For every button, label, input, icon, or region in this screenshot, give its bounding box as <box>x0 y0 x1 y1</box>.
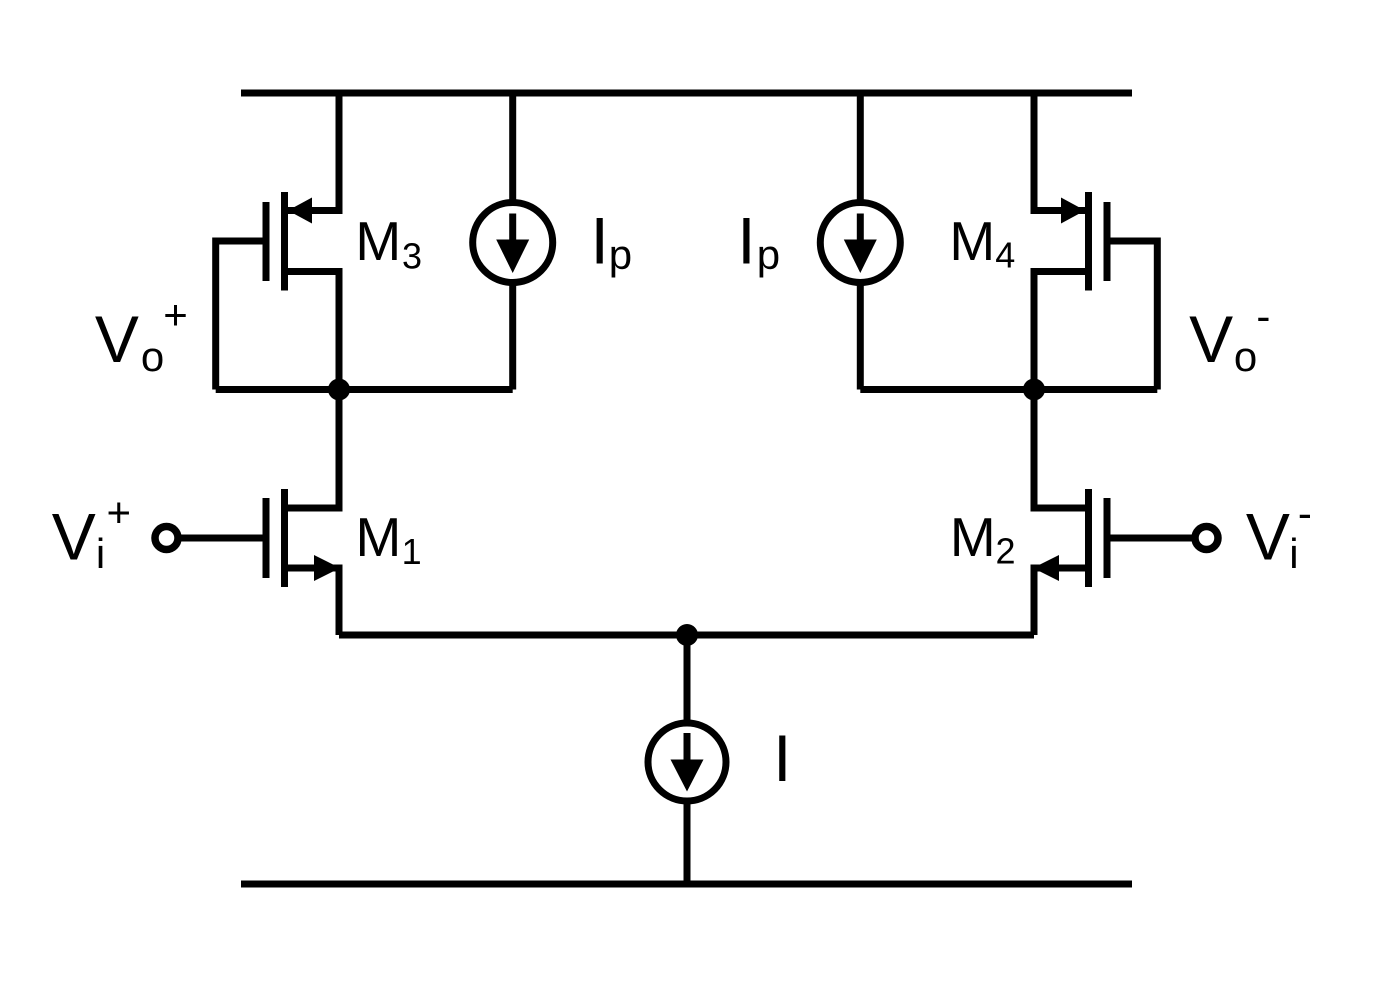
wire M2 gate lead <box>1107 535 1207 542</box>
current source Ip1 circle <box>473 203 553 283</box>
node A junction dot <box>328 379 350 401</box>
svg-text:o: o <box>141 333 164 380</box>
wire node row right <box>860 386 1157 393</box>
wire Ip1 to node A <box>509 281 516 390</box>
wire VDD to current source Ip1 <box>509 93 516 204</box>
svg-text:-: - <box>1298 490 1312 537</box>
wire VDD to current source Ip2 <box>857 93 864 204</box>
wire M3 gate loop (diode connection) <box>216 241 266 390</box>
wire M2 drain lead <box>1031 505 1090 512</box>
current source Ip2 arrow <box>857 214 864 242</box>
svg-text:M: M <box>950 506 996 568</box>
wire M2 source lead <box>1031 565 1090 572</box>
svg-text:V: V <box>95 302 139 376</box>
svg-text:p: p <box>609 231 632 278</box>
wire M4 source lead to VDD <box>1034 93 1085 211</box>
current source I circle <box>648 723 726 801</box>
svg-text:1: 1 <box>402 531 422 572</box>
current source I arrow <box>684 733 691 761</box>
transistor M1 channel bar <box>281 489 288 587</box>
transistor M3 channel bar <box>281 192 288 291</box>
svg-text:o: o <box>1234 333 1257 380</box>
input terminal Vi+ circle <box>155 527 178 550</box>
transistor M2 gate bar <box>1104 498 1111 578</box>
wire M1 source lead <box>284 565 343 572</box>
wire M3 drain to node A <box>336 272 343 509</box>
svg-text:V: V <box>1246 500 1290 574</box>
svg-text:p: p <box>757 231 780 278</box>
svg-text:I: I <box>773 721 791 795</box>
node tail junction dot <box>676 624 698 646</box>
svg-text:+: + <box>163 291 188 338</box>
svg-text:M: M <box>356 506 402 568</box>
input terminal Vi- circle <box>1195 527 1218 550</box>
svg-text:+: + <box>107 489 132 536</box>
svg-text:4: 4 <box>995 235 1015 276</box>
transistor M4 gate bar <box>1104 202 1111 281</box>
transistor M1 source arrow <box>314 555 340 581</box>
svg-text:3: 3 <box>402 236 422 277</box>
current source Ip1 arrow <box>509 214 516 242</box>
wire M3 source lead to VDD <box>288 93 339 211</box>
wire M4 gate loop (diode connection) <box>1107 241 1157 390</box>
svg-text:i: i <box>1289 530 1298 577</box>
svg-text:M: M <box>949 210 995 272</box>
transistor M2 channel bar <box>1085 489 1092 587</box>
wire M3 drain lead <box>284 268 343 275</box>
svg-text:i: i <box>96 530 105 577</box>
svg-text:I: I <box>737 204 755 278</box>
wire node row left <box>216 386 513 393</box>
wire M2 source to tail <box>1031 568 1038 635</box>
transistor M3 gate bar <box>263 202 270 281</box>
node B junction dot <box>1023 379 1045 401</box>
transistor M1 gate bar <box>263 498 270 578</box>
wire M4 drain to node B <box>1031 272 1038 509</box>
VSS rail (bottom) <box>241 881 1132 888</box>
transistor M3 source arrow <box>288 198 312 224</box>
VDD rail (top) <box>241 90 1132 97</box>
wire tail row <box>339 632 1034 639</box>
wire M1 source to tail <box>336 568 343 635</box>
wire Ip2 to node B <box>857 281 864 390</box>
wire M4 drain lead <box>1031 268 1090 275</box>
svg-text:M: M <box>355 210 401 272</box>
svg-text:V: V <box>52 500 96 574</box>
transistor M2 source arrow <box>1033 555 1059 581</box>
current source Ip2 circle <box>820 203 900 283</box>
wire M1 drain lead <box>284 505 343 512</box>
wire tail node to current source I <box>684 635 691 725</box>
transistor M4 channel bar <box>1085 192 1092 291</box>
svg-text:V: V <box>1189 302 1233 376</box>
wire I to VSS rail <box>684 800 691 885</box>
svg-text:-: - <box>1256 293 1270 340</box>
svg-text:2: 2 <box>996 531 1016 572</box>
wire M1 gate lead <box>167 535 267 542</box>
transistor M4 source arrow <box>1061 198 1085 224</box>
svg-text:I: I <box>591 204 609 278</box>
